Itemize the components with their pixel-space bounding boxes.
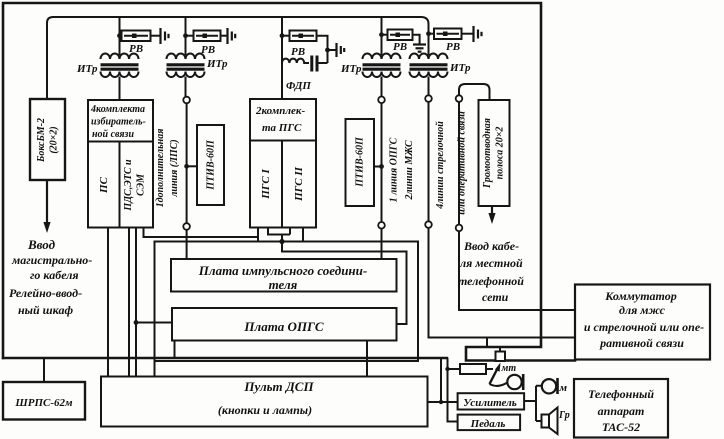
cabinet border — [3, 3, 575, 361]
microphone 1 — [507, 375, 521, 389]
box Kommutator — [575, 285, 710, 360]
ground of RV2 — [228, 28, 236, 44]
cabinet bottom edge — [3, 357, 447, 359]
box PS — [88, 142, 120, 228]
svg-text:1 линия ОПГС: 1 линия ОПГС — [389, 137, 400, 202]
svg-text:ной связи: ной связи — [92, 129, 134, 140]
svg-text:Ввод: Ввод — [27, 237, 56, 252]
svg-text:полоса 20×2: полоса 20×2 — [495, 127, 506, 180]
wire branch3 — [281, 17, 283, 99]
loudspeaker Gr — [542, 408, 558, 435]
svg-text:м: м — [559, 382, 568, 394]
wire PDS lead 1 — [128, 228, 130, 377]
wire PDS lead 2 — [135, 228, 137, 377]
svg-text:Коммутатор: Коммутатор — [604, 289, 677, 303]
svg-text:мт: мт — [501, 363, 517, 374]
box Gromootvodnaya polosa — [479, 100, 510, 206]
svg-text:ИТр: ИТр — [449, 62, 471, 74]
svg-text:Плата ОПГС: Плата ОПГС — [243, 319, 323, 334]
svg-text:Ввод кабе-: Ввод кабе- — [463, 239, 519, 253]
wire PGS I lead b — [268, 228, 290, 235]
svg-text:Гр: Гр — [558, 410, 570, 421]
node line OPGS with circles — [381, 103, 383, 259]
key Mt square — [496, 352, 506, 362]
junction dot on container top — [279, 239, 284, 244]
box 4 komplekta izbiratelnoy svyazi (header) — [88, 100, 153, 142]
svg-text:ПГС I: ПГС I — [260, 169, 272, 200]
svg-text:Пульт ДСП: Пульт ДСП — [243, 379, 314, 394]
junction dot lead2-OPGS tap — [134, 320, 139, 325]
svg-text:ИТр: ИТр — [340, 63, 362, 75]
svg-text:РВ: РВ — [446, 41, 460, 53]
svg-text:БоксБМ-2: БоксБМ-2 — [36, 118, 47, 163]
junction dot branch4 — [379, 32, 384, 37]
microphone 2 — [542, 379, 556, 393]
svg-text:для мжс: для мжс — [619, 303, 666, 317]
wire pult to usilitel — [428, 401, 458, 403]
arrow cable entry under BM-2 — [43, 180, 50, 233]
junction dot OPGS-PTIV2 — [379, 164, 384, 169]
box Pedal — [458, 415, 520, 431]
wire PGS II lead c — [289, 228, 291, 235]
wire kommutator stub — [486, 338, 488, 348]
arrester RV2 — [186, 31, 228, 42]
wire plata OPGS bottom-left down — [174, 341, 176, 359]
wire branch2 — [185, 17, 187, 54]
filter FDP coil — [282, 59, 309, 63]
svg-text:Усилитель: Усилитель — [463, 397, 517, 409]
svg-text:ПТИВ-60П: ПТИВ-60П — [355, 136, 366, 188]
junction dot RV3 ground node — [325, 48, 330, 53]
resistor element — [460, 364, 486, 374]
box PTIV-60P no.1 — [197, 125, 224, 205]
wire PS lead down to pult — [107, 228, 109, 377]
wire branch1 — [119, 17, 121, 54]
junction dot branch3 — [280, 33, 285, 38]
container box around plata cards — [155, 242, 419, 377]
svg-text:ПГС II: ПГС II — [293, 166, 305, 202]
box 2 komplekta PGS (header) — [250, 99, 316, 141]
wire resistor to key — [486, 368, 493, 370]
arrow under Gromootvodnaya — [488, 206, 495, 224]
wire to resistor — [448, 368, 461, 370]
wire plata OPGS bottom down to pult — [366, 341, 368, 377]
transformer ITr5 — [410, 54, 448, 96]
box Pult DSP — [101, 377, 428, 427]
svg-text:1дополнительная: 1дополнительная — [155, 129, 166, 208]
svg-text:4линии стрелочной: 4линии стрелочной — [435, 121, 446, 210]
box ShRPS-62m — [43, 358, 45, 382]
box PTIV-60P no.2 — [346, 119, 375, 206]
wire branch4 — [381, 17, 383, 54]
svg-text:ТАС-52: ТАС-52 — [602, 420, 640, 434]
junction dot branch1 — [117, 33, 122, 38]
wire drop 1 — [440, 358, 442, 402]
box PDS ETS SEM — [120, 142, 154, 228]
svg-text:телефонной: телефонной — [458, 274, 524, 288]
svg-text:та ПГС: та ПГС — [262, 122, 302, 134]
wire PDS lead 3 to plata — [144, 228, 259, 238]
svg-text:Плата импульсного соедини-: Плата импульсного соедини- — [198, 263, 367, 278]
svg-text:Релейно-ввод-: Релейно-ввод- — [9, 286, 82, 300]
svg-text:магистрально-: магистрально- — [11, 253, 92, 267]
ground of RV1 — [161, 28, 169, 44]
svg-text:ИТр: ИТр — [76, 63, 98, 75]
svg-text:РВ: РВ — [393, 41, 407, 53]
svg-text:РВ: РВ — [291, 46, 305, 58]
svg-text:2комплек-: 2комплек- — [255, 105, 305, 117]
junction dot branch5 — [426, 31, 431, 36]
transformer ITr1 — [101, 54, 139, 101]
svg-text:линия (ЛПС): линия (ЛПС) — [169, 139, 180, 197]
svg-text:(20×2): (20×2) — [49, 126, 60, 153]
node line LPS with circles — [187, 103, 197, 259]
svg-text:ный шкаф: ный шкаф — [18, 303, 73, 317]
svg-text:2линии МЖС: 2линии МЖС — [404, 140, 415, 200]
wire tap to plata OPGS left — [136, 322, 172, 324]
svg-text:Педаль: Педаль — [470, 418, 506, 430]
transformer ITr4 — [363, 54, 401, 97]
box Plata OPGS — [172, 308, 397, 341]
wire usilitel to mic2 and speaker — [524, 386, 542, 421]
svg-text:Громоотводная: Громоотводная — [482, 118, 493, 189]
box BoksBM-2 — [30, 99, 65, 180]
junction dot drop1-usilitel — [439, 400, 443, 404]
junction dot LPS-PTIV — [184, 164, 189, 169]
svg-text:ративной связи: ративной связи — [599, 336, 684, 350]
wire PGS I lead a — [257, 228, 259, 242]
svg-text:и стрелочной или опе-: и стрелочной или опе- — [584, 320, 704, 334]
transformer ITr2 — [167, 54, 205, 97]
svg-text:ФДП: ФДП — [286, 80, 311, 92]
svg-text:ШРПС-62м: ШРПС-62м — [14, 397, 73, 409]
junction dot drop2-resistor — [445, 367, 449, 371]
svg-text:ИТр: ИТр — [206, 58, 228, 70]
wire center drop to node — [282, 235, 407, 325]
svg-text:ПТИВ-60П: ПТИВ-60П — [206, 139, 217, 191]
ground of RV4 — [413, 45, 426, 52]
ground of RV5 — [474, 26, 482, 42]
arrester RV4 — [382, 30, 420, 45]
arrester RV1 — [122, 31, 161, 42]
box PGS I — [250, 141, 282, 228]
svg-text:ля местной: ля местной — [459, 256, 523, 270]
arrester RV3 — [282, 31, 337, 64]
bus — [47, 17, 429, 100]
node line MZhS/strelochnaya with circles — [429, 102, 576, 338]
key Mt lever — [490, 363, 501, 385]
svg-text:4комплекта: 4комплекта — [90, 104, 145, 115]
box Plata impulsnogo soedinitelya — [171, 259, 397, 292]
box PGS II — [282, 141, 316, 228]
svg-text:(кнопки и лампы): (кнопки и лампы) — [218, 403, 312, 417]
svg-text:теля: теля — [269, 277, 298, 292]
svg-text:сети: сети — [482, 290, 509, 304]
junction dot branch2 — [183, 33, 188, 38]
svg-text:аппарат: аппарат — [598, 404, 645, 418]
filter FDP capacitor — [312, 56, 328, 72]
arrester RV5 — [429, 29, 474, 40]
svg-text:ПС: ПС — [98, 176, 110, 194]
node line operativnaya with circles — [459, 84, 575, 310]
svg-text:ПДС,ЭТС и: ПДС,ЭТС и — [123, 159, 134, 212]
wire lever to mic1 — [490, 383, 508, 386]
svg-text:СЭМ: СЭМ — [136, 173, 147, 196]
wire PGS II lead d — [302, 228, 304, 242]
ground of RV3 — [337, 43, 345, 57]
svg-text:избиратель-: избиратель- — [91, 117, 146, 128]
box Usilitel — [458, 393, 524, 409]
wire drop 2 — [448, 358, 458, 422]
svg-text:Телефонный: Телефонный — [588, 387, 654, 401]
wires pult right to amplifiers — [428, 358, 461, 422]
box Telefonnyi apparat TAS-52 — [574, 379, 668, 438]
wire PTIV2 to OPGS line — [374, 166, 382, 168]
svg-text:го кабеля: го кабеля — [30, 268, 79, 282]
